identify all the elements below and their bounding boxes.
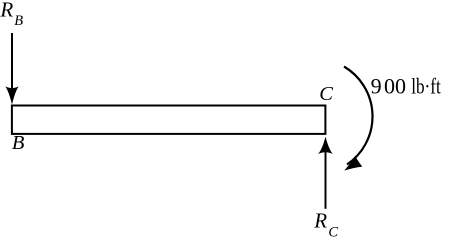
node B label — [12, 132, 25, 154]
svg-text:B: B — [14, 13, 23, 29]
force arrow R_C (upward onto node C) — [318, 137, 333, 209]
svg-text:C: C — [319, 83, 333, 105]
force arrow R_B (downward onto node B) — [5, 33, 18, 105]
svg-text:R: R — [0, 0, 13, 22]
label R_C — [313, 208, 338, 240]
moment arc arrow (clockwise couple at C) — [344, 67, 373, 171]
svg-text:900lb·ft: 900lb·ft — [371, 74, 441, 99]
label R_B — [0, 0, 23, 29]
svg-text:B: B — [12, 132, 25, 154]
beam BC (rectangle) — [12, 106, 326, 134]
svg-text:R: R — [313, 208, 327, 232]
label 900 lb·ft — [371, 74, 441, 99]
node C label — [319, 83, 333, 105]
svg-text:C: C — [328, 225, 338, 241]
